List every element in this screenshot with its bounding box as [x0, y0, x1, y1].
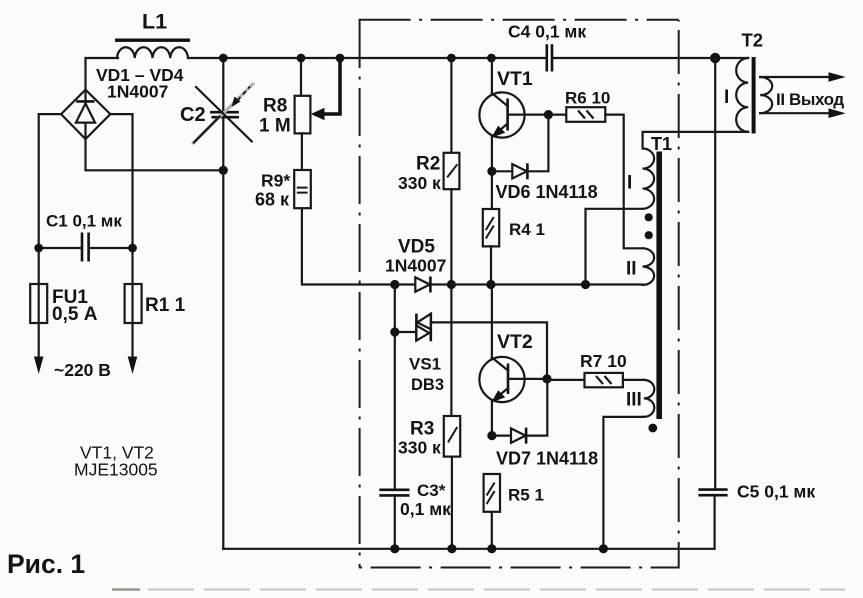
wire C5 bottom lead	[713, 496, 715, 548]
svg-text:VT1: VT1	[497, 68, 533, 90]
wire T1-I bottom lead	[586, 209, 643, 285]
T1 winding I	[643, 149, 655, 209]
bridge inner diode lead	[84, 92, 86, 139]
junction VT1 base node	[544, 110, 553, 119]
svg-text:VD7 1N4118: VD7 1N4118	[496, 449, 598, 469]
svg-text:III: III	[626, 390, 642, 411]
dashed boundary box right edge	[678, 20, 680, 568]
arrow mains left	[34, 357, 44, 375]
wire R2 bottom lead	[450, 189, 452, 284]
wire VT2 collector	[491, 285, 493, 358]
resistor R6	[548, 113, 566, 115]
C2 dashed adjust arrow	[238, 87, 251, 101]
bridge rectifier VD1-VD4 diamond	[61, 90, 110, 139]
dashed boundary box left edge	[359, 20, 361, 568]
svg-text:R1 1: R1 1	[145, 295, 186, 316]
inductor L1 core	[115, 39, 190, 42]
wire R2 top lead	[450, 58, 452, 153]
svg-text:R7 10: R7 10	[580, 351, 627, 371]
svg-text:Рис. 1: Рис. 1	[7, 549, 85, 579]
diode VD6	[492, 170, 512, 172]
wire R6 to T1-II	[605, 115, 642, 249]
wire AC right branch	[110, 114, 132, 359]
T1 winding III	[644, 380, 655, 417]
wire C1 right lead	[90, 247, 133, 249]
resistor R1	[125, 284, 142, 323]
svg-text:VT2: VT2	[497, 331, 533, 353]
svg-text:R6 10: R6 10	[565, 89, 610, 108]
resistor R4	[483, 209, 499, 246]
fuse FU1	[30, 284, 47, 323]
junction top rail VT1 collector	[487, 54, 496, 63]
svg-text:T2: T2	[742, 30, 764, 51]
junction VD6 anode	[487, 167, 496, 176]
junction VD5 anode	[390, 280, 399, 289]
junction R5 bottom	[487, 544, 496, 553]
svg-text:DB3: DB3	[411, 376, 444, 394]
wire R9 to VD5	[302, 208, 395, 284]
svg-text:~220 В: ~220 В	[54, 360, 111, 380]
potentiometer R8	[295, 96, 311, 134]
svg-text:VD6 1N4118: VD6 1N4118	[496, 182, 598, 202]
svg-text:0,5 А: 0,5 А	[52, 304, 98, 325]
wire output bottom	[760, 112, 829, 114]
wire C2 top lead	[222, 58, 224, 111]
C2 trimmer diagonal	[196, 87, 252, 142]
R9 inner marks	[297, 188, 308, 193]
svg-text:1N4007: 1N4007	[107, 82, 168, 102]
svg-text:II: II	[626, 259, 637, 280]
transistor VT2	[479, 357, 524, 402]
T1 winding II	[643, 248, 655, 285]
wire C3 bottom lead	[394, 497, 396, 549]
arrow output bottom	[829, 108, 846, 118]
arrow output top	[829, 72, 846, 82]
svg-text:R2: R2	[416, 154, 440, 175]
svg-text:VD5: VD5	[398, 237, 435, 258]
junction top rail wiper	[336, 54, 345, 63]
junction VS1 left	[390, 327, 399, 336]
svg-text:330 к: 330 к	[398, 438, 441, 458]
svg-text:II Выход: II Выход	[776, 90, 844, 109]
phasing dot T1 winding III	[648, 424, 657, 433]
wire top rail right part	[553, 57, 748, 59]
wire C2 bottom lead	[222, 119, 224, 171]
resistor R7	[547, 379, 585, 381]
bridge inner diode cathode bar	[76, 100, 94, 103]
wire T1-III bottom lead	[603, 417, 643, 549]
phasing dot T1 upper	[645, 213, 653, 221]
resistor R3	[444, 416, 460, 457]
wire AC left branch	[39, 114, 61, 359]
svg-text:68 к: 68 к	[255, 190, 290, 210]
junction top rail R8	[297, 54, 306, 63]
junction DC minus node	[219, 166, 228, 175]
wire VT2 base lead	[508, 378, 547, 380]
svg-text:MJE13005: MJE13005	[74, 460, 158, 480]
svg-text:R4 1: R4 1	[509, 220, 545, 239]
diac VS1	[395, 331, 416, 333]
transformer T1 core	[656, 152, 662, 420]
dashed boundary box bottom edge	[357, 567, 680, 569]
wire R3 bottom lead	[451, 457, 453, 549]
svg-text:I: I	[724, 87, 729, 108]
dashed boundary box top edge	[359, 19, 679, 21]
diode VD7	[492, 435, 511, 437]
capacitor C4 plates	[547, 44, 552, 71]
svg-text:I: I	[627, 173, 632, 194]
wire DC minus vertical	[222, 170, 224, 549]
junction C3 bottom	[390, 544, 399, 553]
svg-text:0,1 мк: 0,1 мк	[400, 499, 451, 519]
transformer T2 core	[752, 57, 756, 134]
svg-text:C2: C2	[180, 104, 206, 126]
svg-text:R9*: R9*	[261, 171, 290, 191]
arrow mains right	[128, 357, 138, 375]
wire output top	[760, 76, 829, 78]
svg-text:L1: L1	[142, 10, 167, 34]
svg-text:R3: R3	[410, 419, 434, 440]
wire VT1 emitter lead	[491, 137, 493, 209]
wire C1 left lead	[39, 247, 81, 249]
T2 primary winding I	[736, 58, 748, 132]
svg-text:T1: T1	[651, 134, 672, 154]
junction VD7 anode	[487, 431, 496, 440]
junction top rail T2	[710, 53, 720, 63]
svg-text:C3*: C3*	[417, 481, 446, 500]
svg-text:R8: R8	[263, 96, 287, 117]
resistor R2	[444, 153, 460, 189]
svg-text:VS1: VS1	[409, 355, 441, 374]
svg-text:C5 0,1 мк: C5 0,1 мк	[737, 482, 815, 502]
junction top rail R2	[447, 54, 456, 63]
wire R8 wiper bold	[324, 58, 340, 114]
junction VT1 emitter bottom	[486, 280, 495, 289]
junction T1-III bottom	[599, 544, 608, 553]
wire R4 bottom lead	[490, 246, 492, 284]
arrow R8 wiper	[311, 108, 325, 120]
wire VT2 emitter lead	[491, 401, 493, 435]
svg-text:R5 1: R5 1	[508, 486, 544, 505]
C2 shadow diagonal	[192, 83, 254, 144]
svg-text:330 к: 330 к	[398, 173, 441, 193]
resistor R5	[484, 474, 500, 512]
wire VS1 node to C3	[394, 285, 396, 490]
C2 lower diagonal thin	[194, 117, 220, 143]
wire bottom rail	[223, 548, 714, 550]
wire R8 to R9 bold	[301, 133, 303, 170]
svg-text:1N4007: 1N4007	[385, 256, 446, 276]
wire bridge top to L1	[86, 58, 119, 90]
junction T1-I return	[581, 280, 590, 289]
wire T2 down to C5	[714, 58, 716, 489]
capacitor C5 plates	[698, 490, 727, 496]
wire T2 primary to T1-I	[643, 132, 749, 149]
wire R8 top lead	[300, 58, 302, 95]
junction C1 right	[128, 244, 137, 253]
junction VT2 base node	[542, 374, 551, 383]
T2 secondary winding II	[760, 77, 772, 113]
svg-text:C1 0,1 мк: C1 0,1 мк	[46, 212, 122, 231]
wire R2node to R3	[450, 285, 452, 417]
capacitor C1 plates	[82, 233, 89, 262]
bridge inner diode	[76, 104, 95, 123]
capacitor C2 plates	[210, 112, 239, 117]
junction VD5 cathode	[447, 280, 456, 289]
phasing dot T1 lower	[645, 231, 653, 239]
wire midpoint rail	[451, 283, 642, 285]
wire VT1 base lead	[508, 113, 549, 115]
scan artifact bottom line	[112, 588, 140, 590]
capacitor C3 plates	[379, 490, 409, 496]
wire VT1 collector	[491, 58, 493, 93]
wire R7 to T1-III	[623, 379, 644, 381]
svg-text:1 М: 1 М	[259, 116, 291, 137]
transistor VT1	[479, 92, 524, 137]
diode VD5	[395, 283, 416, 285]
junction C1 left	[34, 244, 43, 253]
junction top rail C2	[219, 54, 228, 63]
wire top rail left part	[188, 57, 545, 59]
inductor L1 coil	[117, 47, 188, 58]
wire bridge bottom to DC minus	[86, 139, 224, 170]
resistor R9	[294, 170, 311, 208]
junction R3 bottom	[447, 544, 456, 553]
wire R5 bottom lead	[491, 512, 493, 549]
svg-text:C4 0,1 мк: C4 0,1 мк	[508, 22, 586, 42]
